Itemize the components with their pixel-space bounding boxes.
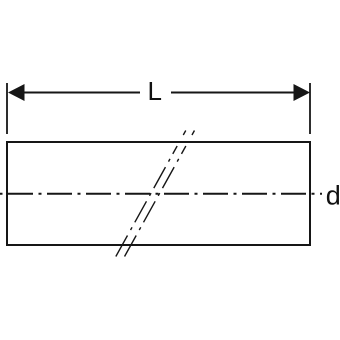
pipe body rectangle [7, 142, 310, 245]
centerline (dash-dot axis) [0, 193, 322, 195]
extension line right [309, 83, 311, 134]
break line left diagonal (dash-dot pieces, bottom to top) [116, 131, 186, 257]
dimension line L left segment [21, 92, 140, 94]
extension line left [6, 83, 8, 134]
svg-text:d: d [326, 180, 340, 210]
dimension line L right segment [171, 92, 296, 94]
arrowhead left [8, 84, 25, 101]
break line right diagonal (dash-dot pieces, bottom to top) [125, 131, 195, 257]
svg-text:L: L [148, 76, 162, 106]
arrowhead right [294, 84, 311, 101]
